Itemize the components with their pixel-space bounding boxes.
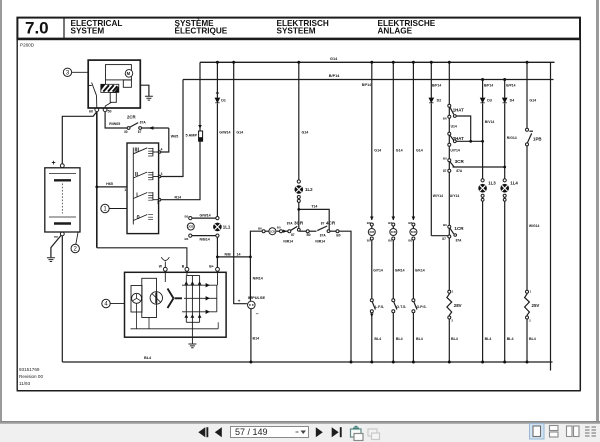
svg-text:1L2: 1L2: [305, 187, 313, 192]
svg-text:87: 87: [442, 237, 446, 241]
svg-text:1HAT: 1HAT: [453, 107, 464, 112]
svg-text:P260D: P260D: [20, 43, 35, 48]
svg-text:H65: H65: [106, 182, 113, 186]
svg-text:0: 0: [137, 215, 140, 221]
svg-text:B6: B6: [388, 221, 392, 225]
svg-text:30: 30: [124, 130, 128, 134]
svg-text:3CB: 3CB: [369, 231, 374, 234]
svg-text:G/K14: G/K14: [415, 269, 425, 273]
svg-text:G14: G14: [302, 130, 309, 134]
svg-text:14: 14: [237, 252, 241, 256]
svg-text:−: −: [54, 233, 59, 242]
svg-text:B14: B14: [253, 337, 260, 341]
svg-text:B/P14: B/P14: [484, 84, 493, 88]
svg-text:BL4: BL4: [416, 337, 423, 341]
svg-text:4CB: 4CB: [391, 231, 396, 234]
svg-text:BL4: BL4: [144, 356, 152, 360]
svg-text:1L1: 1L1: [223, 225, 231, 230]
svg-text:B6: B6: [185, 237, 189, 241]
svg-text:5 AMP: 5 AMP: [186, 134, 198, 138]
svg-text:B0: B0: [408, 238, 412, 242]
svg-text:L.F.S.: L.F.S.: [375, 305, 384, 309]
svg-text:2: 2: [451, 319, 453, 323]
svg-text:11/93: 11/93: [19, 381, 31, 386]
svg-text:G14: G14: [396, 148, 403, 152]
svg-text:B6: B6: [367, 221, 371, 225]
svg-text:Revision 00: Revision 00: [19, 374, 43, 379]
svg-text:87: 87: [291, 233, 295, 237]
svg-text:7.0: 7.0: [25, 19, 49, 38]
svg-text:N/R14: N/R14: [253, 276, 263, 280]
svg-text:G/Y14: G/Y14: [373, 269, 383, 273]
svg-text:D3: D3: [487, 99, 492, 103]
svg-text:O.P.S.: O.P.S.: [417, 305, 427, 309]
svg-text:B0: B0: [443, 156, 447, 160]
svg-text:1: 1: [530, 290, 532, 294]
svg-text:1PB: 1PB: [533, 137, 542, 142]
svg-text:87A: 87A: [287, 222, 294, 226]
svg-text:R14: R14: [175, 195, 182, 199]
svg-text:I: I: [136, 193, 138, 199]
svg-text:G14: G14: [529, 99, 536, 103]
svg-text:B/P14: B/P14: [362, 83, 371, 87]
svg-text:SYSTEEM: SYSTEEM: [277, 27, 316, 36]
svg-text:87A: 87A: [456, 169, 463, 173]
svg-text:3: 3: [161, 172, 163, 176]
svg-text:−: −: [256, 312, 259, 318]
svg-text:D2: D2: [437, 99, 442, 103]
svg-text:1CB: 1CB: [270, 230, 275, 233]
svg-text:93151769: 93151769: [19, 367, 40, 372]
svg-text:IMPULSE: IMPULSE: [248, 295, 266, 300]
svg-text:87A: 87A: [456, 239, 463, 243]
svg-text:87: 87: [443, 169, 447, 173]
svg-text:G14: G14: [374, 148, 381, 152]
svg-text:G/W14: G/W14: [219, 130, 230, 134]
svg-text:B/P14: B/P14: [329, 74, 340, 78]
svg-text:G/R14: G/R14: [395, 269, 405, 273]
svg-text:50: 50: [108, 110, 112, 114]
svg-text:B+: B+: [209, 264, 213, 268]
svg-text:B0: B0: [277, 226, 281, 230]
svg-text:T14: T14: [311, 205, 317, 209]
svg-text:BL4: BL4: [529, 337, 536, 341]
svg-text:M: M: [127, 71, 131, 76]
svg-text:W65: W65: [171, 135, 178, 139]
svg-text:87A: 87A: [320, 234, 327, 238]
svg-text:SYSTEM: SYSTEM: [71, 27, 105, 36]
svg-text:87: 87: [138, 130, 142, 134]
svg-text:B: B: [182, 264, 185, 268]
svg-text:N/B: N/B: [225, 252, 232, 256]
svg-text:B/V14: B/V14: [485, 120, 495, 124]
svg-text:2CB: 2CB: [188, 226, 193, 229]
svg-text:O.T.S.: O.T.S.: [396, 305, 406, 309]
svg-text:60: 60: [89, 110, 93, 114]
svg-text:+: +: [238, 299, 241, 304]
svg-text:D1: D1: [221, 99, 226, 103]
svg-text:G/W14: G/W14: [200, 213, 211, 217]
svg-text:BL4: BL4: [451, 337, 458, 341]
svg-text:B0: B0: [185, 214, 189, 218]
svg-text:B0: B0: [336, 234, 340, 238]
svg-text:II: II: [135, 172, 138, 178]
svg-text:B/P14: B/P14: [432, 84, 441, 88]
svg-text:W/Y14: W/Y14: [433, 194, 443, 198]
svg-text:3CR: 3CR: [455, 159, 465, 164]
svg-text:BL4: BL4: [507, 337, 514, 341]
svg-text:B6: B6: [443, 116, 447, 120]
svg-text:G14: G14: [330, 57, 338, 61]
svg-text:BL4: BL4: [374, 337, 381, 341]
svg-text:G14: G14: [416, 148, 423, 152]
svg-text:B6: B6: [258, 226, 262, 230]
svg-text:4CR: 4CR: [326, 221, 336, 226]
svg-text:B0: B0: [367, 238, 371, 242]
svg-text:B0: B0: [307, 233, 311, 237]
svg-text:R/W65: R/W65: [109, 122, 120, 126]
svg-text:N/B14: N/B14: [200, 238, 210, 242]
svg-text:1L3: 1L3: [488, 180, 496, 185]
svg-text:W/G14: W/G14: [529, 224, 540, 228]
svg-text:1: 1: [124, 188, 126, 192]
svg-text:D4: D4: [510, 99, 515, 103]
svg-text:2: 2: [529, 319, 531, 323]
svg-text:2CR: 2CR: [127, 115, 136, 120]
svg-text:87A: 87A: [140, 121, 147, 125]
svg-text:1L4: 1L4: [510, 180, 518, 185]
svg-text:N/R14: N/R14: [315, 239, 325, 243]
svg-text:B6: B6: [408, 221, 412, 225]
svg-text:ANLAGE: ANLAGE: [378, 27, 413, 36]
svg-text:BL4: BL4: [485, 337, 492, 341]
svg-text:G14: G14: [236, 130, 243, 134]
svg-text:BL4: BL4: [396, 337, 403, 341]
svg-text:4: 4: [161, 148, 163, 152]
svg-text:28V: 28V: [454, 303, 462, 308]
svg-text:25V: 25V: [532, 303, 540, 308]
svg-text:2: 2: [157, 201, 159, 205]
svg-text:1CR: 1CR: [454, 226, 464, 231]
svg-text:B/P14: B/P14: [506, 84, 515, 88]
svg-text:R/G14: R/G14: [507, 136, 517, 140]
svg-text:ÉLECTRIQUE: ÉLECTRIQUE: [175, 26, 228, 36]
svg-text:1: 1: [452, 290, 454, 294]
svg-text:U/Y14: U/Y14: [450, 194, 460, 198]
svg-text:B0: B0: [443, 223, 447, 227]
svg-text:2HAT: 2HAT: [453, 136, 464, 141]
svg-text:3CR: 3CR: [294, 221, 304, 226]
svg-text:5CB: 5CB: [411, 231, 416, 234]
svg-text:N/R14: N/R14: [283, 239, 293, 243]
svg-text:+: +: [52, 160, 56, 167]
svg-text:W: W: [159, 264, 163, 268]
svg-text:B0: B0: [388, 238, 392, 242]
svg-text:III: III: [135, 148, 140, 154]
svg-text:U/Y14: U/Y14: [450, 149, 460, 153]
svg-text:U14: U14: [451, 124, 457, 128]
svg-text:87: 87: [321, 222, 325, 226]
